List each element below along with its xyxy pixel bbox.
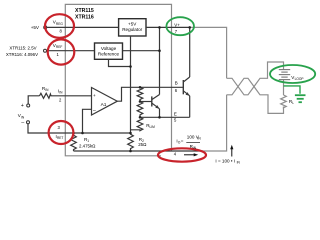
svg-text:XTR115: XTR115	[75, 8, 94, 14]
svg-text:–: –	[21, 120, 24, 126]
svg-text:LOOP: LOOP	[295, 77, 304, 81]
svg-text:LIM: LIM	[150, 125, 156, 129]
svg-text:+: +	[21, 103, 24, 109]
svg-text:REG: REG	[56, 22, 63, 26]
svg-text:V+: V+	[174, 22, 180, 27]
svg-text:–: –	[93, 107, 96, 113]
svg-text:E: E	[174, 111, 177, 116]
svg-text:+: +	[93, 93, 96, 98]
svg-text:Reference: Reference	[98, 51, 120, 56]
svg-text:XTR116: 4.096V: XTR116: 4.096V	[6, 52, 38, 57]
svg-text:=: =	[181, 138, 184, 143]
svg-text:+5V: +5V	[31, 25, 40, 30]
svg-text:L: L	[292, 101, 294, 105]
svg-text:1: 1	[87, 139, 89, 143]
svg-text:Voltage: Voltage	[101, 46, 117, 51]
svg-text:Regulator: Regulator	[122, 27, 142, 32]
svg-text:A1: A1	[101, 102, 107, 108]
svg-text:XTR115: 2.5V: XTR115: 2.5V	[9, 46, 36, 51]
svg-text:RET: RET	[57, 136, 63, 140]
svg-text:B: B	[175, 81, 178, 86]
svg-text:XTR116: XTR116	[75, 15, 94, 21]
svg-text:25Ω: 25Ω	[138, 142, 147, 147]
svg-text:I = 100 • I: I = 100 • I	[215, 159, 235, 164]
svg-text:REF: REF	[56, 45, 62, 49]
svg-text:2.475kΩ: 2.475kΩ	[79, 143, 96, 148]
svg-text:+5V: +5V	[128, 22, 137, 27]
